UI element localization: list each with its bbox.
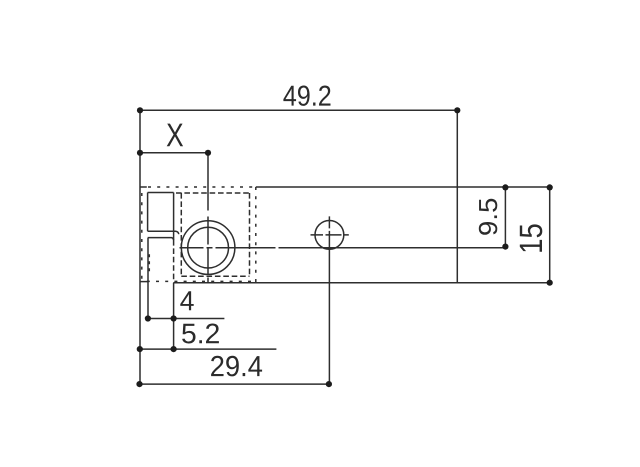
dim X terminator dots (137, 150, 143, 156)
left slot upper rectangle bottom with hook (148, 231, 179, 234)
extension line x=173.6 down to dim 5.2 (173, 283, 175, 349)
part left edge with extension lines (dim 49.2 / X / 5.2 / 29.4) (139, 110, 141, 384)
dimension 15 line (549, 187, 551, 282)
hole 1 vertical centerline + X extension (207, 153, 209, 211)
dim text 4 (180, 291, 193, 310)
dim 49.2 terminator dots (137, 107, 143, 113)
dim text 15 (rotated) (520, 224, 543, 251)
dimension X line (140, 152, 208, 154)
dimension 9.5 line (504, 187, 506, 246)
dim 9.5 terminator dots (502, 184, 508, 190)
dim text 29.4 (211, 356, 262, 377)
hole 1 outer circle (181, 221, 235, 275)
hidden profile dotted right (255, 187, 257, 283)
dim 4 terminator dots (145, 315, 151, 321)
hole 1 inner circle (188, 227, 229, 268)
part bottom edge left stub (140, 281, 149, 283)
block dashed rect left (180, 193, 182, 276)
part right edge with extension up to dim 49.2 (456, 110, 458, 282)
hidden profile dotted left (141, 193, 143, 281)
hidden profile dotted bottom (147, 280, 256, 282)
hole 2 horizontal centerline (311, 234, 349, 236)
block dashed rect right (249, 193, 251, 276)
left slot second shelf with hook (148, 238, 174, 240)
block dashed rect top (176, 192, 250, 194)
dimension 5.2 line (140, 348, 277, 350)
dimension 29.4 line (140, 383, 329, 385)
dim text X (167, 124, 183, 147)
hole 2 vertical centerline + extension to dim 29.4 (328, 216, 330, 384)
dim 29.4 terminator dots (136, 381, 142, 387)
hole 2 circle (315, 221, 344, 250)
block dashed rect bottom (181, 275, 249, 277)
part bottom edge main run with extension to dim 15 (173, 282, 552, 284)
part top edge solid right run (256, 186, 457, 188)
left slot lower wall + extension to dim 4 (147, 238, 149, 319)
part top edge hidden dotted run (148, 186, 256, 188)
dim text 9.5 (rotated) (479, 199, 498, 235)
hidden dotted stub inside slot (148, 254, 150, 273)
hidden wall dashed x=173.6 (173, 240, 175, 281)
left slot upper rectangle left wall (147, 193, 149, 232)
part top edge solid left stub (140, 186, 147, 188)
dim 5.2 terminator dots (137, 346, 143, 352)
dim text 5.2 (182, 324, 219, 344)
dimension 49.2 line (140, 109, 457, 111)
dimension 4 line (148, 318, 225, 320)
top edge extension to dims 9.5/15 (457, 186, 552, 188)
left slot upper rectangle top (148, 192, 174, 194)
dim 15 terminator dots (547, 184, 553, 190)
left slot right wall (173, 193, 175, 241)
hole 1 horizontal centerline extended to dim 9.5 (180, 247, 506, 249)
dim text 49.2 (283, 86, 330, 106)
